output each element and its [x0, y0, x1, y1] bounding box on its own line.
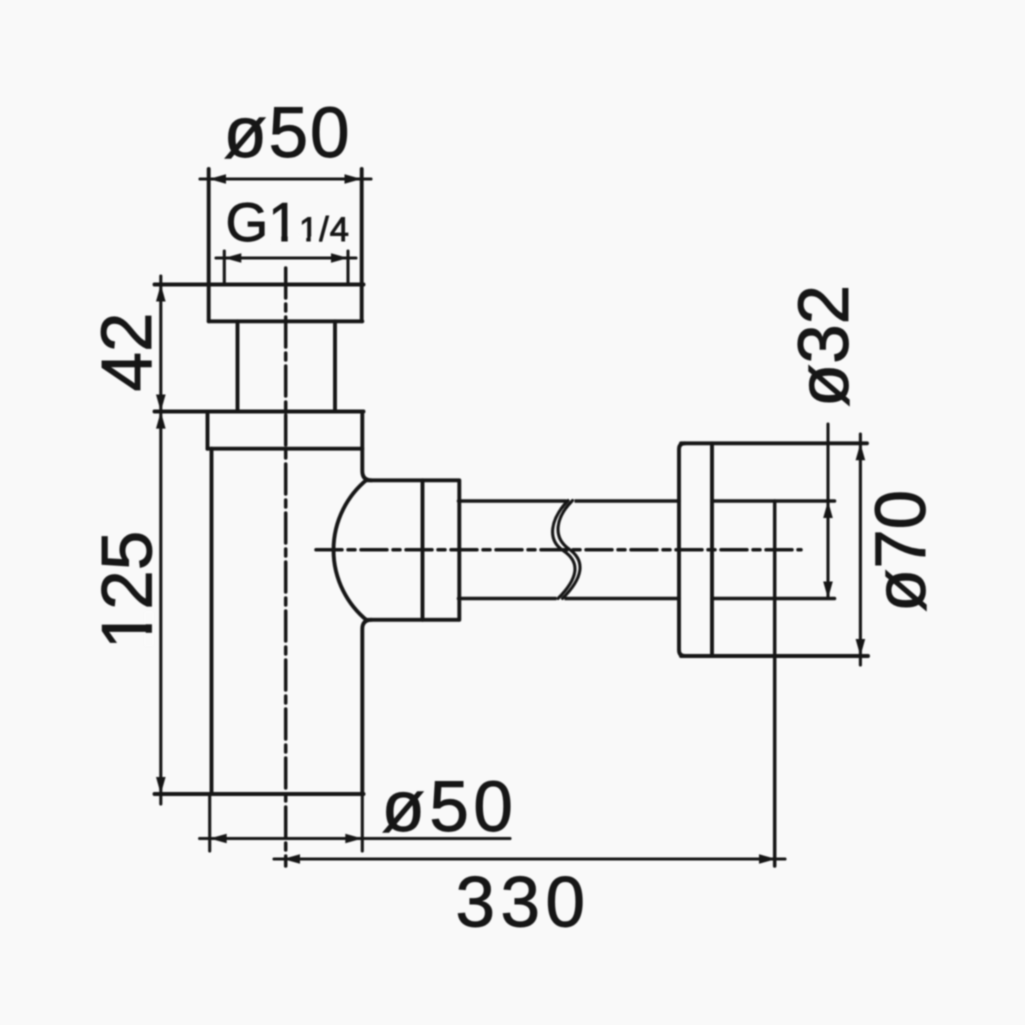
svg-text:42: 42: [88, 313, 167, 392]
wire: body cap bottom line: [208, 447, 363, 451]
mask foot of 1 in G1 left: [270, 235, 281, 245]
mask foot of 1 in 1/4 left: [299, 237, 306, 245]
wall flange inner edge: [710, 443, 714, 656]
arrowhead 330 left: [283, 854, 300, 864]
dimension bottom diameter 50: right extension: [361, 794, 364, 851]
wire: outlet nut ring line 2: [457, 480, 461, 620]
wire: horizontal pipe bottom line: [459, 597, 680, 601]
arrowhead G1 right: [331, 253, 348, 263]
wire: pipe bottom line behind flange: [712, 597, 835, 601]
mask foot of 1 in 125 lower: [144, 633, 153, 647]
dimension G1 1/4: right extension tick: [346, 251, 349, 285]
arrowhead d70 bottom: [856, 639, 866, 656]
dimension top diameter 50: line: [200, 177, 371, 180]
arrowhead 125 top: [156, 412, 166, 429]
dimension bottom diameter 50: left extension: [208, 794, 211, 851]
svg-text:ø50: ø50: [224, 94, 352, 173]
wire: threaded pipe left edge: [236, 321, 240, 411]
dimension G1 1/4: left extension tick: [223, 251, 226, 285]
wall flange left edge: [679, 443, 685, 656]
wire: outlet top line: [366, 478, 459, 482]
wire: outlet bottom line: [366, 618, 459, 622]
arrowhead bottom d50 right: [345, 834, 362, 844]
centerline vertical (body axis): [284, 268, 288, 866]
dimension 42 and 125: vertical line: [159, 276, 162, 804]
arrowhead d32 bottom: [823, 582, 833, 599]
pipe break squiggle line 2: [553, 501, 575, 599]
wire: threaded pipe right edge: [333, 321, 337, 411]
wire: pipe end edge and 330 extension line: [773, 501, 777, 866]
svg-text:125: 125: [89, 531, 168, 649]
centerline horizontal (pipe axis): [316, 548, 801, 552]
svg-text:1/4: 1/4: [299, 211, 350, 249]
arrowhead 125 bottom: [156, 777, 166, 794]
arrowhead top d50 left: [209, 174, 226, 184]
wire: body cap top line: [155, 410, 364, 414]
wire: body left edge: [210, 449, 214, 794]
wire: horizontal pipe top line: [459, 499, 680, 503]
wire: inlet flange top line: [155, 283, 364, 287]
wall flange top line: [681, 441, 867, 445]
wire: body right edge lower: [362, 620, 371, 794]
wire: inlet flange bottom line: [209, 319, 363, 323]
dimension diameter 32: vertical line: [826, 424, 829, 599]
wire: outlet bulge arc: [334, 480, 367, 621]
wire: inlet flange right edge: [360, 169, 364, 321]
arrowhead d32 top: [823, 501, 833, 518]
dimension 330: line: [274, 857, 785, 860]
wall flange bottom line: [681, 654, 868, 658]
mask foot of 1 in 1/4 right: [311, 237, 319, 245]
wire: pipe top line behind flange: [712, 499, 835, 503]
dimension diameter 70: vertical line: [859, 434, 862, 665]
wire: inlet flange left edge: [207, 169, 211, 321]
arrowhead d70 top: [856, 443, 866, 460]
arrowhead 330 right: [759, 854, 776, 864]
arrowhead 42 top: [156, 285, 166, 302]
mask foot of 1 in G1 right: [288, 235, 299, 245]
svg-text:ø50: ø50: [382, 768, 518, 847]
wire: body bottom line: [155, 792, 364, 796]
svg-text:330: 330: [456, 864, 591, 943]
mask foot of 1 in 125 upper: [144, 611, 153, 624]
svg-text:ø32: ø32: [785, 285, 864, 407]
pipe break squiggle line 1: [567, 498, 575, 504]
arrowhead 42 bottom: [156, 395, 166, 412]
arrowhead top d50 right: [345, 174, 362, 184]
arrowhead bottom d50 left: [210, 834, 227, 844]
dimension G1 1/4: line: [216, 256, 356, 259]
arrowhead G1 left: [224, 253, 241, 263]
wire: outlet nut ring line 1: [421, 480, 425, 620]
svg-text:ø70: ø70: [862, 490, 941, 612]
dimension bottom diameter 50: line: [200, 837, 510, 840]
pipe break squiggle line 1: [558, 501, 580, 599]
wire: body cap left edge: [206, 412, 210, 449]
wire: body right edge upper: [362, 412, 371, 481]
